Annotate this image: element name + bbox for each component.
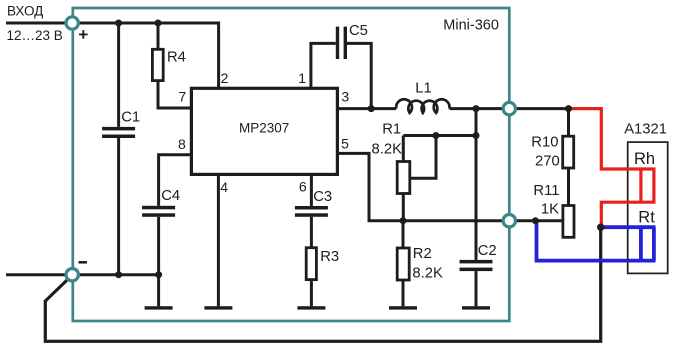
- wire pin 1 to C5 left: [311, 43, 336, 88]
- wire R1 top: [403, 136, 476, 162]
- minus sign: [79, 261, 88, 264]
- wire L1 to output node: [449, 107, 568, 110]
- wire R2 leads: [402, 221, 405, 307]
- capacitor C5: [336, 27, 347, 59]
- resistor R1: [397, 162, 410, 194]
- resistor R11: [563, 206, 574, 238]
- svg-text:C5: C5: [349, 23, 368, 39]
- capacitor C2: [460, 260, 493, 271]
- svg-text:4: 4: [220, 179, 228, 195]
- svg-text:L1: L1: [415, 80, 431, 96]
- heater element Rh: [641, 169, 654, 202]
- svg-text:Rh: Rh: [634, 150, 655, 168]
- node terminal circle output +: [503, 102, 515, 114]
- node terminal circle input -: [66, 269, 78, 281]
- svg-text:7: 7: [178, 89, 186, 105]
- svg-text:R10: R10: [531, 134, 558, 150]
- wire R4 bottom to pin 7: [158, 81, 191, 108]
- svg-text:ВХОД: ВХОД: [7, 4, 43, 19]
- capacitor C4: [142, 206, 175, 217]
- svg-text:270: 270: [535, 154, 560, 170]
- wire R1 bottom: [402, 194, 405, 221]
- svg-text:12…23 В: 12…23 В: [7, 28, 63, 43]
- svg-text:C1: C1: [121, 109, 140, 125]
- capacitor C1: [102, 127, 135, 138]
- node terminal circle input +: [66, 17, 78, 29]
- node junction dots: [115, 20, 122, 27]
- wire heater red return: [601, 202, 655, 225]
- wire minus return bottom path: [45, 228, 600, 341]
- wire heater red lead from output: [569, 109, 656, 169]
- svg-text:C4: C4: [161, 188, 180, 204]
- svg-text:A1321: A1321: [624, 122, 667, 138]
- ground (C4): [145, 306, 173, 309]
- resistor R2: [397, 248, 409, 280]
- wire sensor blue top: [602, 225, 656, 229]
- wire input + rail to pin 2: [6, 23, 219, 88]
- svg-text:3: 3: [341, 89, 349, 105]
- resistor R4: [152, 49, 163, 80]
- wire C1 top lead: [117, 23, 120, 127]
- wire output to C2: [475, 109, 478, 260]
- wire R1 wiper: [411, 136, 437, 179]
- ground (C2): [462, 306, 490, 309]
- svg-text:MP2307: MP2307: [239, 120, 289, 135]
- svg-text:R1: R1: [382, 122, 401, 138]
- svg-text:8: 8: [178, 136, 186, 152]
- svg-text:Mini-360: Mini-360: [443, 17, 499, 33]
- svg-text:6: 6: [299, 178, 307, 194]
- wire C4 bottom to ground: [157, 217, 160, 307]
- svg-text:R2: R2: [413, 246, 432, 262]
- svg-text:C3: C3: [313, 189, 332, 205]
- svg-text:Rt: Rt: [638, 209, 655, 227]
- wire C1 bottom lead: [117, 138, 120, 275]
- resistor R10: [563, 136, 574, 168]
- wire pin 4 to ground: [217, 174, 220, 306]
- svg-text:8.2K: 8.2K: [372, 141, 403, 157]
- wire minus rail: [6, 273, 159, 276]
- inductor L1: [396, 99, 449, 113]
- sensor element Rt: [641, 227, 654, 260]
- IC U1 MP2307 body: [191, 88, 337, 174]
- wire pin 8 to C4: [159, 155, 192, 206]
- sensor body A1321 box: [628, 142, 668, 273]
- resistor R3: [306, 248, 316, 280]
- ground (pin 4): [204, 306, 232, 309]
- Mini-360 module boundary (teal box): [73, 8, 510, 321]
- svg-text:R3: R3: [320, 249, 339, 265]
- svg-text:R4: R4: [167, 50, 186, 66]
- svg-text:R11: R11: [533, 183, 559, 199]
- wire C2 to ground: [475, 271, 478, 306]
- svg-text:8.2K: 8.2K: [412, 265, 443, 281]
- plus sign: [79, 30, 88, 39]
- wire pin 6 to C3: [310, 174, 313, 206]
- svg-text:5: 5: [341, 136, 349, 152]
- node terminal circle output fb: [503, 215, 515, 227]
- wire sensor blue lead from divider: [537, 221, 656, 261]
- svg-text:C2: C2: [478, 243, 497, 259]
- svg-text:2: 2: [221, 70, 229, 86]
- ground (R2): [389, 306, 417, 309]
- capacitor C3: [295, 206, 328, 217]
- wire C5 right to pin 3 net: [347, 43, 371, 108]
- svg-text:1: 1: [298, 70, 306, 86]
- wire C3 to R3: [310, 217, 313, 248]
- wire pin 5 / FB rail: [337, 153, 562, 220]
- wire R4 top lead: [157, 23, 160, 49]
- ground (R3): [297, 306, 325, 309]
- wire R10 R11 chain: [567, 109, 570, 206]
- svg-text:1K: 1K: [541, 202, 559, 218]
- wire pin 3 to L1: [337, 107, 396, 110]
- wire R3 to ground: [310, 280, 313, 307]
